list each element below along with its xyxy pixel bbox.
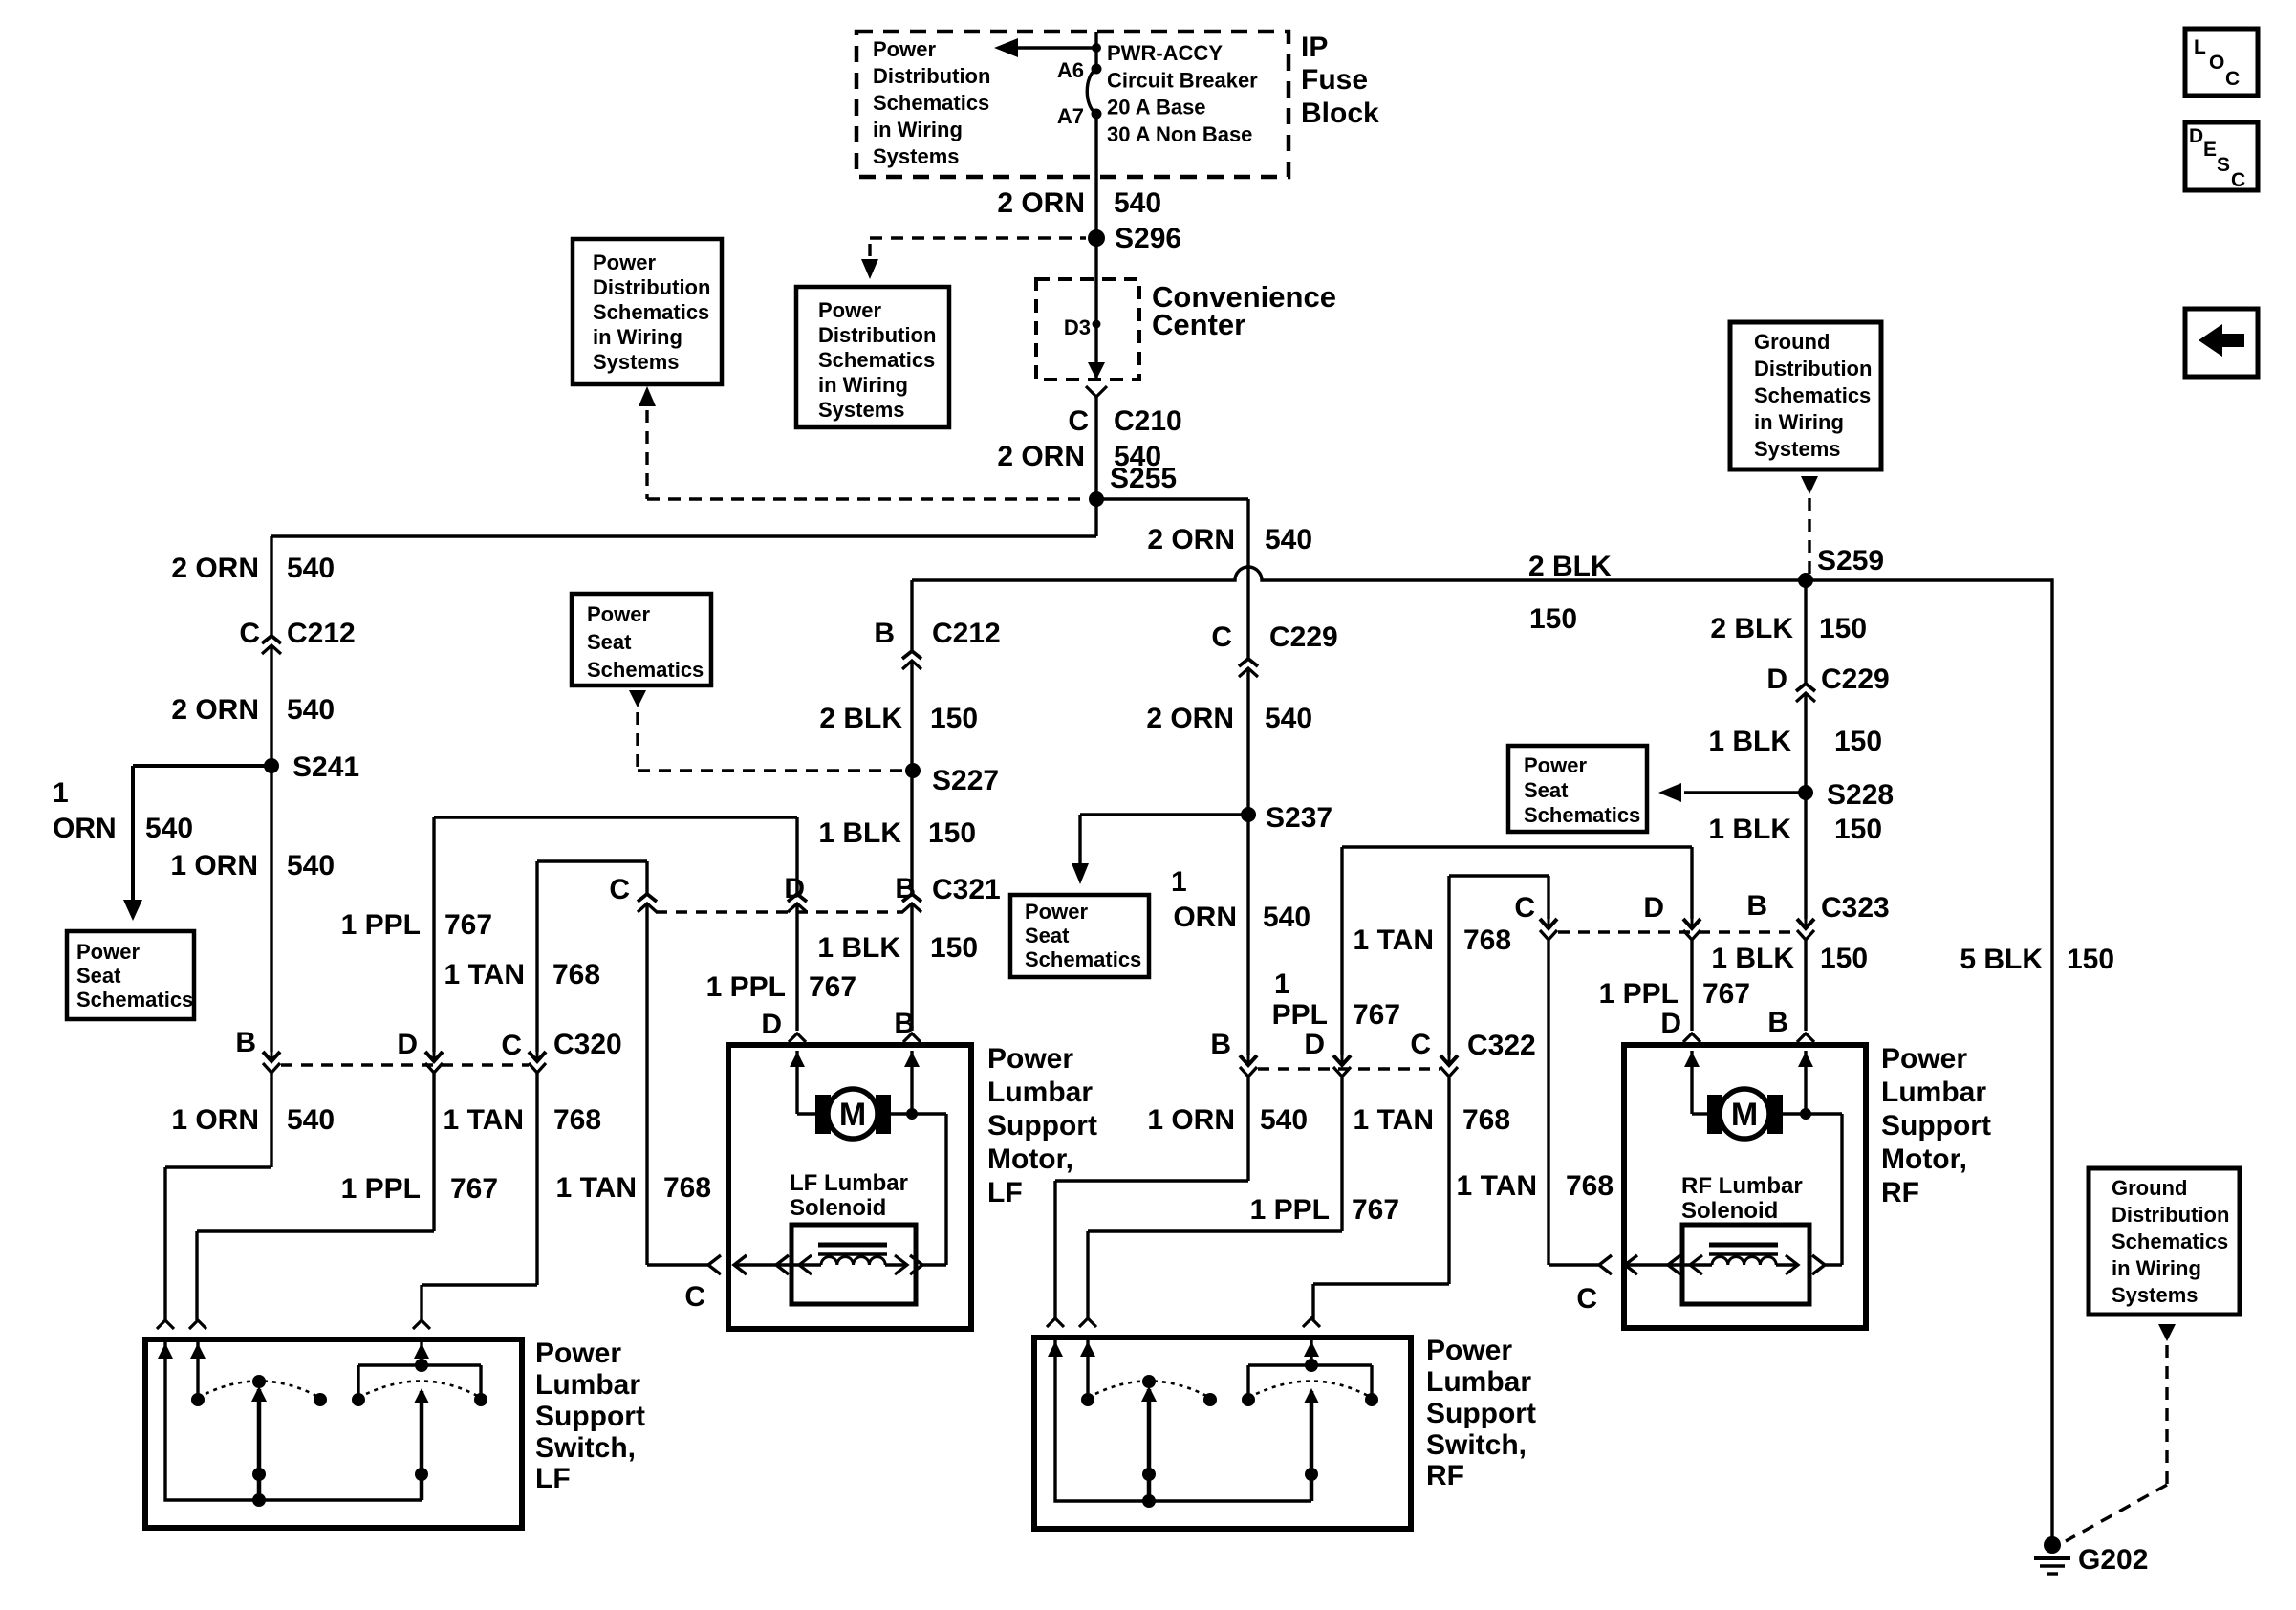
svg-text:Seat: Seat (587, 630, 632, 654)
svg-text:C322: C322 (1467, 1030, 1536, 1061)
svg-text:B: B (1767, 1007, 1788, 1038)
svg-text:S: S (2217, 154, 2230, 176)
svg-text:1: 1 (53, 777, 69, 809)
svg-text:Schematics: Schematics (873, 91, 989, 115)
svg-text:in Wiring: in Wiring (818, 373, 908, 397)
svg-text:150: 150 (930, 703, 978, 734)
svg-text:1 ORN: 1 ORN (1147, 1104, 1235, 1136)
svg-text:C320: C320 (553, 1029, 622, 1060)
svg-text:Lumbar: Lumbar (1426, 1366, 1531, 1398)
svg-text:150: 150 (1834, 726, 1882, 757)
svg-text:Systems: Systems (1754, 437, 1841, 461)
svg-text:1 TAN: 1 TAN (1354, 925, 1434, 956)
svg-text:C: C (609, 874, 630, 905)
svg-text:2 ORN: 2 ORN (171, 553, 259, 584)
svg-text:767: 767 (450, 1173, 498, 1205)
svg-text:1: 1 (1171, 866, 1187, 898)
svg-text:767: 767 (1702, 978, 1750, 1010)
svg-text:C: C (501, 1030, 522, 1061)
svg-text:C210: C210 (1114, 405, 1182, 437)
svg-text:D: D (397, 1029, 418, 1060)
svg-text:B: B (1210, 1029, 1231, 1060)
svg-text:2 BLK: 2 BLK (1710, 613, 1793, 644)
svg-text:1: 1 (1274, 968, 1290, 1000)
svg-text:PPL: PPL (1272, 999, 1328, 1031)
svg-text:B: B (235, 1027, 256, 1058)
svg-text:Systems: Systems (2112, 1283, 2199, 1307)
svg-text:E: E (2203, 139, 2217, 161)
svg-text:C: C (2231, 169, 2245, 191)
svg-text:Schematics: Schematics (1524, 803, 1640, 827)
svg-text:C323: C323 (1821, 892, 1890, 924)
svg-text:Motor,: Motor, (1881, 1143, 1967, 1175)
svg-text:C212: C212 (932, 618, 1001, 649)
svg-text:540: 540 (1265, 524, 1312, 555)
svg-text:L: L (2194, 36, 2206, 58)
svg-text:S227: S227 (932, 765, 999, 796)
svg-text:Power: Power (1881, 1043, 1967, 1075)
svg-text:Schematics: Schematics (593, 300, 709, 324)
svg-text:M: M (1731, 1097, 1758, 1133)
svg-text:2 ORN: 2 ORN (1147, 524, 1235, 555)
svg-text:2 ORN: 2 ORN (997, 187, 1085, 219)
svg-text:PWR-ACCY: PWR-ACCY (1107, 41, 1223, 65)
svg-text:ORN: ORN (53, 813, 117, 844)
svg-text:Solenoid: Solenoid (1681, 1198, 1778, 1224)
svg-text:Support: Support (535, 1401, 645, 1432)
svg-text:1 PPL: 1 PPL (1250, 1194, 1330, 1226)
svg-text:768: 768 (553, 1104, 601, 1136)
svg-text:Schematics: Schematics (1754, 383, 1871, 407)
svg-text:1 BLK: 1 BLK (1708, 726, 1791, 757)
svg-text:Center: Center (1152, 308, 1245, 341)
svg-text:150: 150 (1529, 603, 1577, 635)
svg-text:1 TAN: 1 TAN (1354, 1104, 1434, 1136)
svg-text:767: 767 (444, 909, 492, 941)
svg-text:768: 768 (663, 1172, 711, 1204)
svg-text:150: 150 (2067, 944, 2114, 975)
svg-text:Support: Support (1881, 1110, 1991, 1142)
svg-text:C321: C321 (932, 874, 1001, 905)
svg-text:1 ORN: 1 ORN (170, 850, 258, 881)
svg-text:Schematics: Schematics (76, 988, 193, 1012)
svg-text:D3: D3 (1064, 315, 1091, 339)
svg-text:S255: S255 (1110, 463, 1177, 494)
svg-text:540: 540 (145, 813, 193, 844)
svg-text:G202: G202 (2078, 1544, 2148, 1576)
svg-text:5 BLK: 5 BLK (1960, 944, 2043, 975)
svg-text:in Wiring: in Wiring (2112, 1256, 2201, 1280)
svg-text:540: 540 (287, 1104, 335, 1136)
svg-text:768: 768 (1463, 925, 1511, 956)
svg-text:Ground: Ground (1754, 330, 1830, 354)
svg-text:Distribution: Distribution (818, 323, 936, 347)
svg-text:Fuse: Fuse (1301, 64, 1368, 96)
svg-text:Distribution: Distribution (1754, 357, 1872, 381)
svg-text:Switch,: Switch, (1426, 1429, 1527, 1461)
svg-text:Seat: Seat (76, 964, 121, 988)
svg-text:2 ORN: 2 ORN (171, 694, 259, 726)
svg-text:540: 540 (1114, 187, 1161, 219)
svg-text:Lumbar: Lumbar (987, 1077, 1093, 1108)
svg-text:Seat: Seat (1025, 924, 1070, 947)
svg-text:Power: Power (818, 298, 881, 322)
svg-text:Power: Power (593, 250, 656, 274)
svg-text:540: 540 (287, 553, 335, 584)
svg-text:M: M (839, 1097, 866, 1133)
svg-text:IP: IP (1301, 32, 1328, 63)
svg-text:768: 768 (1462, 1104, 1510, 1136)
svg-text:S237: S237 (1266, 802, 1332, 834)
svg-text:Schematics: Schematics (1025, 947, 1141, 971)
svg-text:Switch,: Switch, (535, 1432, 636, 1464)
svg-text:540: 540 (287, 694, 335, 726)
svg-text:S241: S241 (292, 751, 359, 783)
svg-text:1 TAN: 1 TAN (444, 1104, 524, 1136)
svg-text:2 BLK: 2 BLK (819, 703, 902, 734)
svg-text:1 PPL: 1 PPL (706, 971, 786, 1003)
svg-text:Ground: Ground (2112, 1176, 2187, 1200)
svg-text:1 BLK: 1 BLK (1708, 814, 1791, 845)
svg-text:2 ORN: 2 ORN (997, 441, 1085, 472)
svg-text:in Wiring: in Wiring (1754, 410, 1844, 434)
svg-text:Power: Power (1524, 753, 1587, 777)
svg-text:RF: RF (1426, 1460, 1464, 1491)
svg-text:1 PPL: 1 PPL (341, 1173, 421, 1205)
svg-text:Support: Support (987, 1110, 1097, 1142)
svg-text:540: 540 (287, 850, 335, 881)
svg-text:C229: C229 (1269, 621, 1338, 653)
svg-text:C: C (684, 1281, 705, 1313)
svg-text:Systems: Systems (818, 398, 905, 422)
svg-text:540: 540 (1260, 1104, 1308, 1136)
svg-text:Motor,: Motor, (987, 1143, 1073, 1175)
svg-text:Distribution: Distribution (873, 64, 990, 88)
svg-text:C: C (239, 618, 260, 649)
svg-text:540: 540 (1263, 902, 1310, 933)
svg-text:Distribution: Distribution (593, 275, 710, 299)
svg-text:C229: C229 (1821, 664, 1890, 695)
svg-text:150: 150 (1819, 613, 1867, 644)
svg-text:1 PPL: 1 PPL (1599, 978, 1679, 1010)
svg-text:1 TAN: 1 TAN (1457, 1170, 1537, 1202)
svg-text:Power: Power (987, 1043, 1073, 1075)
svg-text:30 A Non Base: 30 A Non Base (1107, 122, 1252, 146)
svg-text:20 A Base: 20 A Base (1107, 96, 1206, 120)
svg-text:Support: Support (1426, 1398, 1536, 1429)
svg-text:Solenoid: Solenoid (790, 1195, 886, 1221)
svg-text:O: O (2209, 52, 2224, 74)
svg-text:Power: Power (1426, 1335, 1512, 1366)
svg-text:1 TAN: 1 TAN (556, 1172, 637, 1204)
svg-text:150: 150 (1834, 814, 1882, 845)
svg-text:D: D (1766, 664, 1787, 695)
svg-text:Block: Block (1301, 98, 1379, 129)
svg-text:768: 768 (1566, 1170, 1614, 1202)
svg-text:C: C (2225, 68, 2240, 90)
svg-text:D: D (1643, 892, 1664, 924)
svg-text:A7: A7 (1057, 104, 1084, 128)
svg-text:Power: Power (76, 940, 140, 964)
svg-text:RF Lumbar: RF Lumbar (1681, 1173, 1803, 1199)
svg-text:Schematics: Schematics (818, 348, 935, 372)
svg-text:Power: Power (535, 1338, 621, 1369)
svg-text:150: 150 (1820, 943, 1868, 974)
svg-text:D: D (1660, 1008, 1681, 1039)
svg-text:Schematics: Schematics (587, 658, 704, 682)
svg-text:ORN: ORN (1173, 902, 1237, 933)
svg-text:C: C (1211, 621, 1232, 653)
svg-text:S296: S296 (1115, 223, 1181, 254)
svg-text:Lumbar: Lumbar (1881, 1077, 1986, 1108)
svg-text:A6: A6 (1057, 58, 1084, 82)
svg-text:Power: Power (1025, 900, 1088, 924)
svg-text:C: C (1068, 405, 1089, 437)
svg-text:LF: LF (987, 1177, 1023, 1208)
svg-text:C: C (1514, 892, 1535, 924)
svg-text:540: 540 (1265, 703, 1312, 734)
svg-text:Seat: Seat (1524, 778, 1569, 802)
svg-text:1 ORN: 1 ORN (171, 1104, 259, 1136)
svg-text:2 BLK: 2 BLK (1528, 551, 1612, 582)
svg-text:Circuit Breaker: Circuit Breaker (1107, 68, 1258, 92)
svg-text:767: 767 (1352, 1194, 1399, 1226)
svg-text:LF Lumbar: LF Lumbar (790, 1170, 908, 1196)
svg-text:768: 768 (552, 959, 600, 990)
svg-text:Power: Power (873, 37, 936, 61)
svg-text:S228: S228 (1827, 779, 1894, 811)
svg-text:B: B (1746, 890, 1767, 922)
svg-text:in Wiring: in Wiring (593, 325, 682, 349)
svg-text:D: D (1304, 1029, 1325, 1060)
svg-text:C: C (1576, 1283, 1597, 1315)
svg-text:Power: Power (587, 602, 650, 626)
svg-text:C212: C212 (287, 618, 356, 649)
svg-text:Schematics: Schematics (2112, 1229, 2228, 1253)
svg-text:1 BLK: 1 BLK (818, 817, 901, 849)
svg-text:150: 150 (928, 817, 976, 849)
svg-text:1 BLK: 1 BLK (1711, 943, 1794, 974)
svg-text:767: 767 (809, 971, 856, 1003)
svg-text:D: D (2189, 125, 2203, 147)
svg-text:Lumbar: Lumbar (535, 1369, 640, 1401)
svg-text:1 PPL: 1 PPL (341, 909, 421, 941)
svg-text:in Wiring: in Wiring (873, 118, 963, 141)
svg-text:B: B (874, 618, 895, 649)
svg-text:Distribution: Distribution (2112, 1203, 2229, 1227)
svg-text:D: D (761, 1009, 782, 1040)
svg-text:2 ORN: 2 ORN (1146, 703, 1234, 734)
svg-text:S259: S259 (1817, 545, 1884, 577)
svg-text:1 BLK: 1 BLK (817, 932, 900, 964)
svg-text:Systems: Systems (873, 144, 960, 168)
svg-text:RF: RF (1881, 1177, 1919, 1208)
svg-text:C: C (1410, 1029, 1431, 1060)
svg-text:LF: LF (535, 1463, 571, 1494)
svg-text:767: 767 (1353, 999, 1400, 1031)
svg-text:1 TAN: 1 TAN (444, 959, 525, 990)
svg-text:150: 150 (930, 932, 978, 964)
svg-text:Systems: Systems (593, 350, 680, 374)
